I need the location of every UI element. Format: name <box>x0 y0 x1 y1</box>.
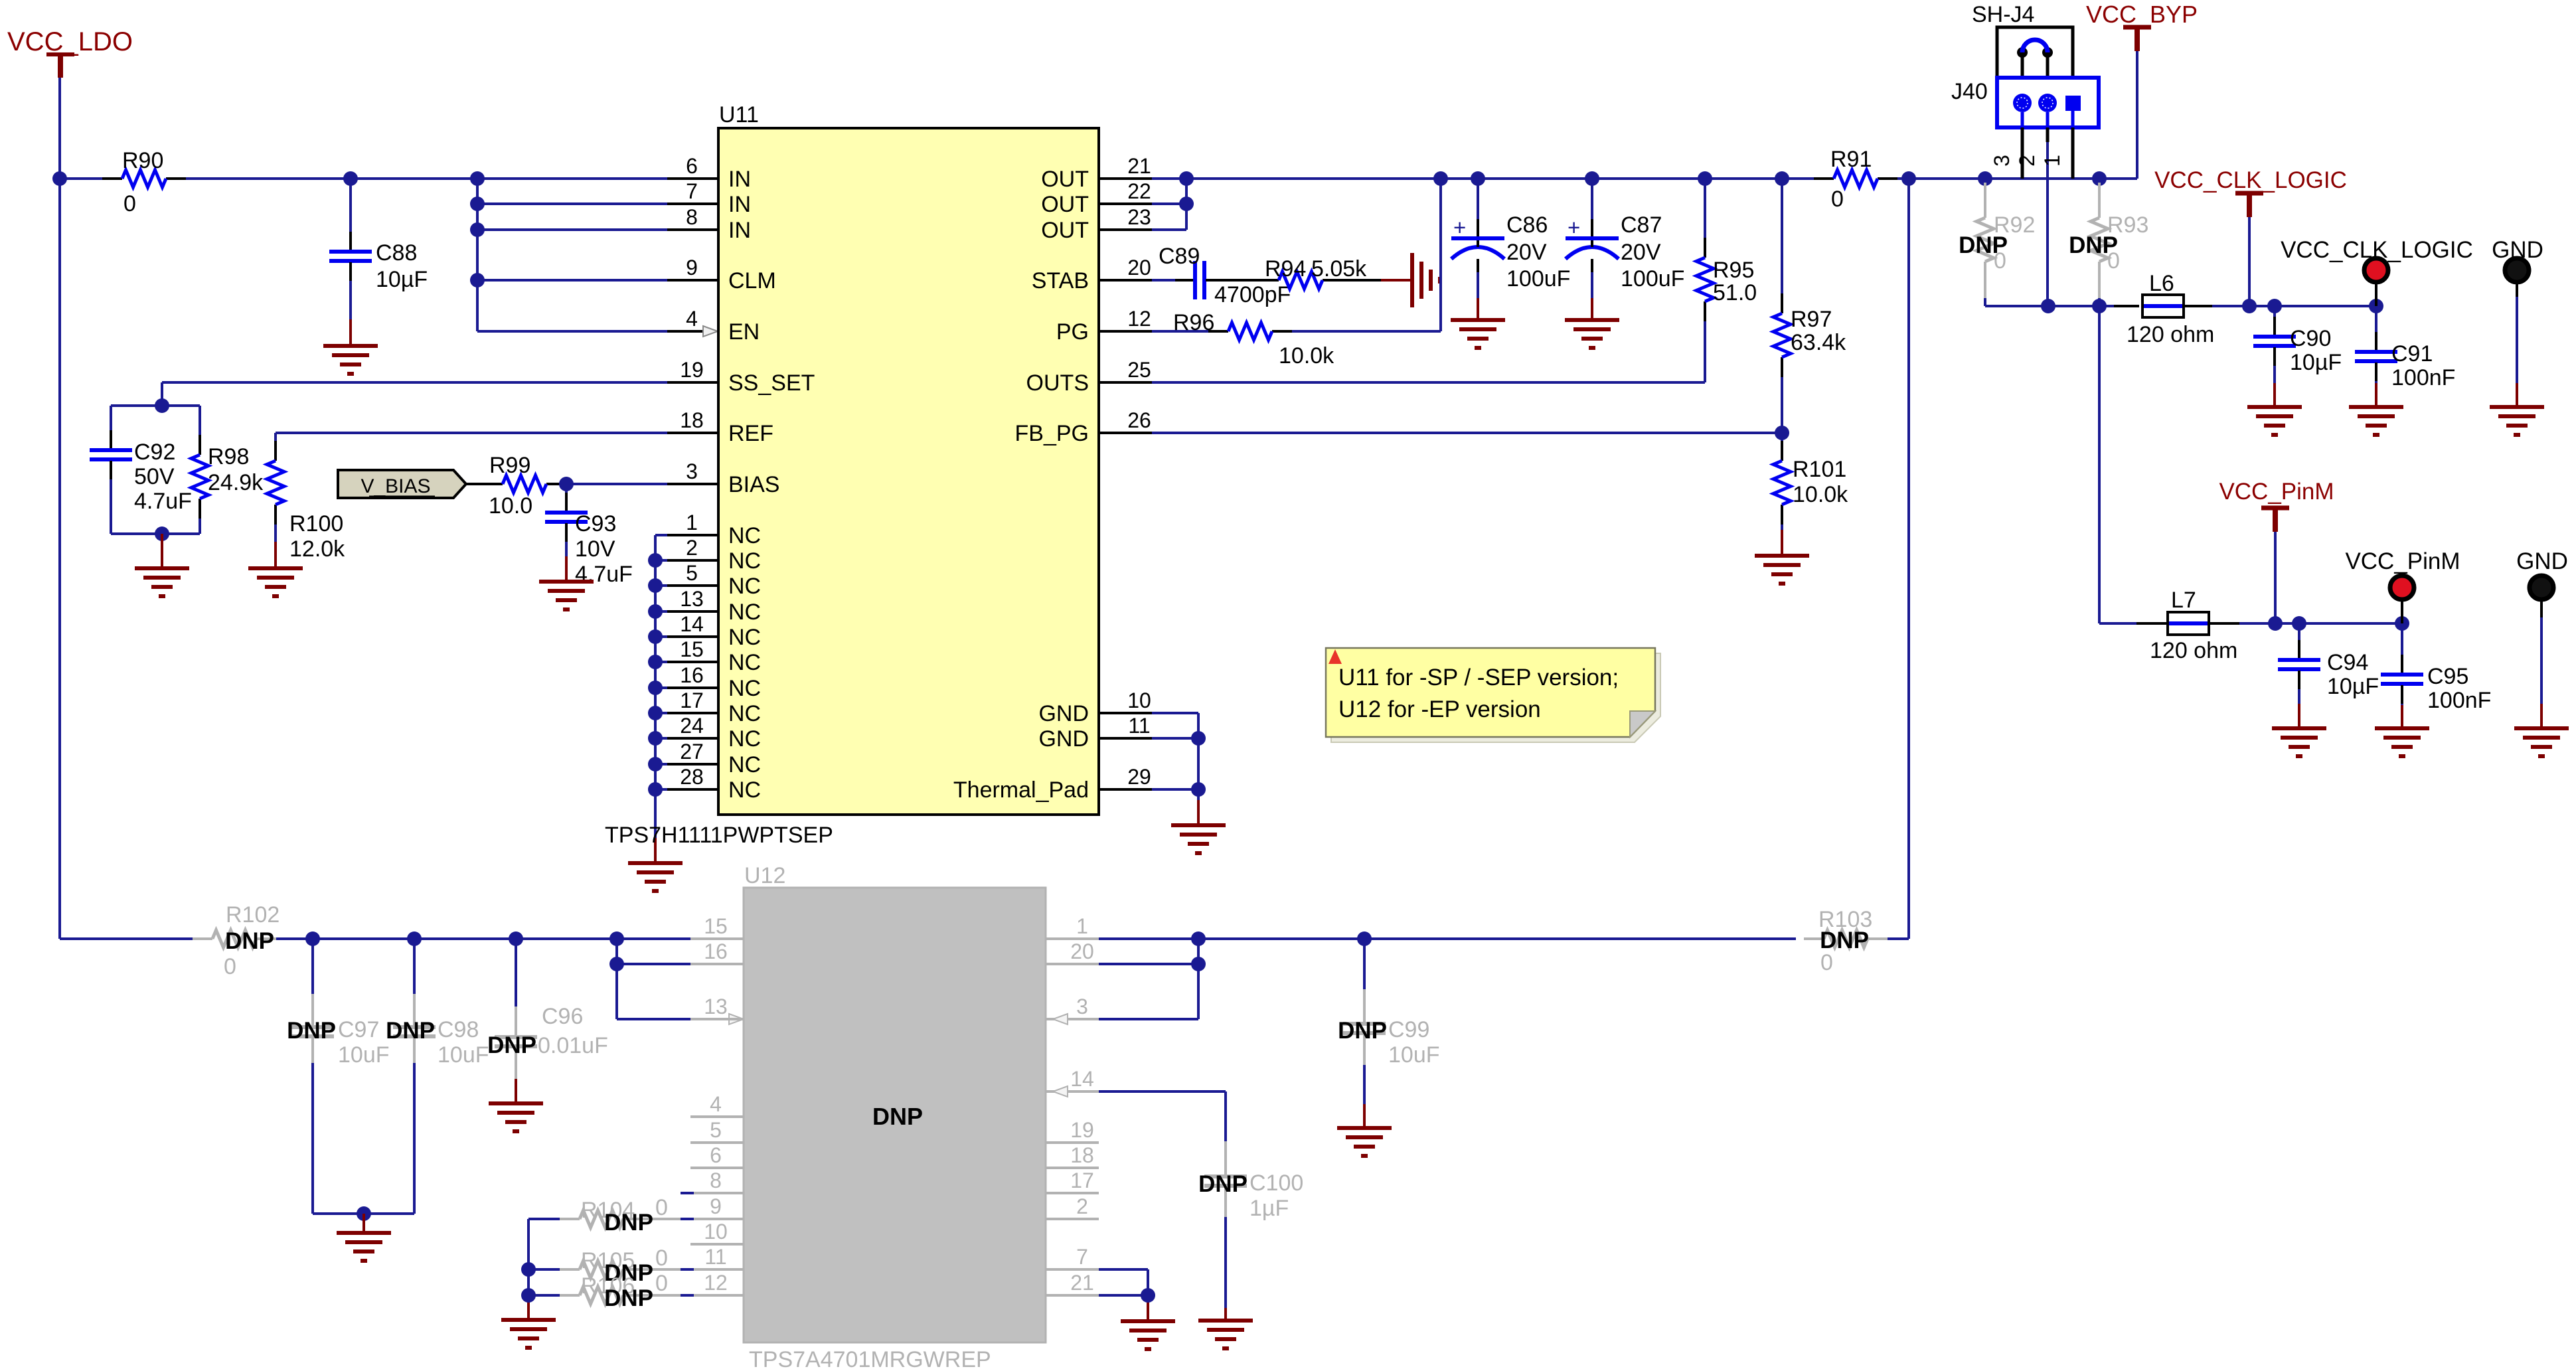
svg-text:DNP: DNP <box>1198 1171 1248 1197</box>
junction C91 tap <box>2369 299 2383 313</box>
test point GND (bottom) <box>2516 548 2568 728</box>
resistor R101 <box>1773 433 1848 530</box>
ground C100 <box>1198 1321 1253 1348</box>
wire pin15 node down to pin16/pin13 <box>617 939 744 1024</box>
resistor R96 <box>1173 310 1334 368</box>
svg-text:0.01uF: 0.01uF <box>538 1033 608 1058</box>
svg-text:17: 17 <box>680 688 704 712</box>
svg-text:16: 16 <box>704 939 728 963</box>
net label V_BIAS <box>338 470 466 498</box>
svg-text:SH-J4: SH-J4 <box>1972 2 2034 27</box>
svg-text:4: 4 <box>686 307 698 331</box>
junction R97 tap <box>1775 171 1789 186</box>
svg-text:16: 16 <box>680 663 704 687</box>
connector J40 header <box>1951 78 2099 127</box>
wire L7 to caps <box>2209 622 2402 625</box>
capacitor C95 <box>2381 623 2491 728</box>
wire VCC_LDO vertical down to bottom rail <box>58 78 61 939</box>
wire to pin 7 <box>477 202 718 205</box>
op-amp U12 TPS7A4701MRGWREP regulator box (DNP) with pin numbers <box>690 863 1099 1371</box>
capacitor C100 (DNP) <box>1198 1141 1303 1321</box>
resistor R97 <box>1773 179 1846 433</box>
resistor R94 <box>1259 256 1367 289</box>
wire SS_SET pin 19 <box>162 382 718 406</box>
svg-text:0: 0 <box>655 1246 668 1271</box>
wire VCC_CLK_LOGIC power to rail <box>2248 217 2251 306</box>
svg-text:VCC_PinM: VCC_PinM <box>2219 479 2334 505</box>
svg-text:DNP: DNP <box>872 1103 923 1130</box>
ground R100 <box>248 568 303 596</box>
wire OUT rail <box>1186 177 2137 180</box>
wire to pin 9 CLM <box>477 279 718 282</box>
svg-text:24: 24 <box>680 714 704 738</box>
svg-text:U12: U12 <box>744 863 785 888</box>
svg-text:NC: NC <box>728 548 761 574</box>
junction pin15 node <box>609 931 624 946</box>
wire R93 node down to L7 <box>2099 306 2168 623</box>
svg-text:NC: NC <box>728 574 761 599</box>
inductor L7 <box>2150 588 2237 663</box>
svg-text:20: 20 <box>1127 256 1151 280</box>
svg-text:26: 26 <box>1127 408 1151 432</box>
svg-text:C87: C87 <box>1621 212 1662 238</box>
svg-text:10.0k: 10.0k <box>1793 482 1848 507</box>
ground C88 <box>323 346 378 374</box>
wire R101 to ground <box>1781 530 1783 556</box>
svg-text:C97: C97 <box>338 1017 379 1042</box>
wire VCC_PinM power to rail <box>2274 532 2277 623</box>
svg-text:50V: 50V <box>134 464 175 489</box>
svg-text:100nF: 100nF <box>2427 688 2491 713</box>
svg-text:DNP: DNP <box>1338 1018 1387 1044</box>
wire C97/C98 bottom bus <box>313 1212 414 1215</box>
capacitor C92 <box>90 406 192 534</box>
svg-text:R100: R100 <box>289 511 343 536</box>
wire R96 to OUT rail <box>1292 179 1441 331</box>
svg-text:C92: C92 <box>134 440 175 465</box>
wire L6 to caps <box>2184 305 2376 307</box>
capacitor C99 (DNP) <box>1338 939 1439 1128</box>
svg-text:12: 12 <box>1127 307 1151 331</box>
svg-text:21: 21 <box>1127 154 1151 178</box>
svg-text:21: 21 <box>1070 1271 1094 1295</box>
svg-text:15: 15 <box>680 637 704 661</box>
svg-text:5: 5 <box>710 1118 722 1142</box>
svg-text:R90: R90 <box>122 148 163 173</box>
connector SH-J4 shunt jumper <box>1972 2 2073 78</box>
svg-text:R95: R95 <box>1713 258 1754 283</box>
ground NC bus <box>628 863 683 891</box>
wire bottom rail left <box>60 937 193 940</box>
svg-text:18: 18 <box>680 408 704 432</box>
svg-text:IN: IN <box>728 192 751 217</box>
svg-text:2: 2 <box>1076 1194 1088 1218</box>
svg-text:C91: C91 <box>2391 341 2433 366</box>
junction pin2 node <box>2041 299 2055 313</box>
svg-text:C86: C86 <box>1506 212 1548 238</box>
svg-text:J40: J40 <box>1951 79 1988 104</box>
power flag VCC_PinM <box>2219 479 2334 532</box>
test point VCC_PinM <box>2345 548 2460 623</box>
svg-text:3: 3 <box>1076 995 1088 1018</box>
inductor L6 <box>2127 271 2214 347</box>
svg-text:CLM: CLM <box>728 268 776 293</box>
resistor R99 <box>483 453 566 519</box>
svg-text:L6: L6 <box>2149 271 2174 296</box>
ground C96 <box>489 1103 543 1131</box>
junction C98 tap <box>407 931 422 946</box>
wire pin20/pin3 link <box>1099 939 1198 1019</box>
svg-text:NC: NC <box>728 650 761 675</box>
svg-text:TPS7H1111PWPTSEP: TPS7H1111PWPTSEP <box>605 823 833 848</box>
wire OUT node to bottom rail <box>1907 179 1910 939</box>
svg-text:5: 5 <box>686 561 698 585</box>
capacitor C88 <box>329 179 428 346</box>
svg-text:GND: GND <box>2516 548 2568 574</box>
junction R105 node <box>521 1262 536 1277</box>
junction C90 tap <box>2267 299 2282 313</box>
svg-text:VCC_PinM: VCC_PinM <box>2345 548 2460 574</box>
junction IN bus pin8 <box>470 222 485 237</box>
svg-text:10µF: 10µF <box>376 267 428 292</box>
U12 pin 14 input arrow <box>1053 1086 1068 1097</box>
ground C91 <box>2349 407 2403 435</box>
svg-text:BIAS: BIAS <box>728 472 779 497</box>
svg-text:OUT: OUT <box>1041 167 1089 192</box>
resistor R105 (DNP) <box>528 1246 694 1286</box>
junction C97 tap <box>305 931 320 946</box>
resistor R95 <box>1696 179 1757 382</box>
ground C97/C98 <box>337 1233 391 1261</box>
svg-text:7: 7 <box>1076 1245 1088 1269</box>
svg-text:19: 19 <box>680 358 704 382</box>
svg-text:5.05k: 5.05k <box>1311 256 1367 282</box>
svg-text:13: 13 <box>704 995 728 1018</box>
svg-text:100uF: 100uF <box>1621 266 1684 291</box>
svg-text:DNP: DNP <box>386 1018 435 1044</box>
svg-text:20: 20 <box>1070 939 1094 963</box>
wire R102 to U12 pin 15 <box>276 937 744 940</box>
capacitor C94 <box>2278 623 2379 728</box>
svg-text:DNP: DNP <box>604 1285 653 1311</box>
svg-text:VCC_LDO: VCC_LDO <box>7 27 133 56</box>
J40 pin 3 wire <box>1990 127 2022 179</box>
ground GND test point 2 <box>2514 728 2569 756</box>
svg-text:+: + <box>1568 215 1580 240</box>
wire R90 to U11 IN <box>351 177 718 180</box>
svg-text:28: 28 <box>680 765 704 789</box>
svg-text:NC: NC <box>728 777 761 803</box>
ground C94 <box>2272 728 2326 756</box>
svg-text:2: 2 <box>686 536 698 560</box>
svg-text:0: 0 <box>655 1195 668 1220</box>
wire VCC rail to L6 <box>1985 305 2139 307</box>
svg-text:15: 15 <box>704 914 728 938</box>
svg-text:FB_PG: FB_PG <box>1015 421 1089 446</box>
junction C92-R98 top <box>155 398 169 413</box>
junction C86 tap <box>1471 171 1485 186</box>
wire PG pin 12 <box>1152 330 1210 333</box>
resistor R103 (DNP) <box>1804 907 1909 975</box>
wire to ground <box>161 534 163 568</box>
svg-text:0: 0 <box>655 1271 668 1296</box>
svg-text:U11 for -SP / -SEP version;: U11 for -SP / -SEP version; <box>1338 665 1619 690</box>
svg-text:11: 11 <box>1128 714 1150 738</box>
svg-text:C96: C96 <box>542 1004 583 1029</box>
svg-text:0: 0 <box>123 191 136 216</box>
junction C93 tap <box>559 477 574 491</box>
svg-text:12: 12 <box>704 1271 728 1295</box>
wire U11 right pin stubs <box>1099 179 1152 789</box>
ground U11 GND <box>1171 825 1226 853</box>
capacitor C98 (DNP) <box>386 939 489 1214</box>
svg-text:L7: L7 <box>2171 588 2196 613</box>
svg-text:DNP: DNP <box>604 1210 653 1236</box>
svg-text:51.0: 51.0 <box>1713 280 1757 305</box>
wire VCC_BYP down to rail <box>2136 51 2138 179</box>
svg-text:4.7uF: 4.7uF <box>134 489 192 514</box>
ground R104 bus <box>501 1320 556 1348</box>
resistor R106 (DNP) <box>528 1271 694 1311</box>
wire to pin 8 <box>477 228 718 231</box>
svg-text:25: 25 <box>1127 358 1151 382</box>
junction pin1 node <box>1191 931 1206 946</box>
U12 pin 3 input arrow <box>1053 1014 1068 1024</box>
svg-text:R102: R102 <box>226 902 280 927</box>
junction C92-R98 bottom <box>155 526 169 541</box>
svg-text:OUT: OUT <box>1041 192 1089 217</box>
wire STAB pin 20 <box>1152 279 1190 282</box>
resistor R98 <box>191 406 264 534</box>
junction C97/C98 ground node <box>357 1206 371 1221</box>
svg-text:GND: GND <box>1038 701 1089 726</box>
test point GND (top) <box>2492 237 2543 407</box>
junction OUT22 <box>1179 197 1194 211</box>
svg-text:1µF: 1µF <box>1249 1196 1289 1221</box>
svg-text:17: 17 <box>1070 1169 1094 1192</box>
junction pin16 node <box>609 957 624 971</box>
svg-text:DNP: DNP <box>287 1018 336 1044</box>
svg-text:120 ohm: 120 ohm <box>2150 638 2237 663</box>
svg-text:22: 22 <box>1127 179 1151 203</box>
power flag VCC_CLK_LOGIC <box>2154 167 2347 217</box>
resistor R104 (DNP) <box>528 1195 694 1236</box>
svg-text:NC: NC <box>728 752 761 777</box>
ground C90 <box>2247 407 2302 435</box>
junction R106 node <box>521 1288 536 1303</box>
junction R93 tap <box>2092 171 2107 186</box>
svg-text:2: 2 <box>2015 155 2039 167</box>
svg-text:C95: C95 <box>2427 664 2468 689</box>
svg-text:OUTS: OUTS <box>1026 370 1089 396</box>
junction R96 pullup <box>1433 171 1448 186</box>
resistor R100 <box>267 433 345 562</box>
wire pin 14 to C100 <box>1099 1091 1226 1141</box>
svg-text:C89: C89 <box>1159 244 1200 269</box>
wire REF pin 18 <box>276 432 718 434</box>
svg-text:14: 14 <box>680 612 704 636</box>
wire C92/R98 bottom bus <box>111 532 200 535</box>
junction FB_PG node <box>1775 426 1789 440</box>
wire U12 pin 1 rail <box>1099 937 1796 940</box>
svg-text:120 ohm: 120 ohm <box>2127 322 2214 347</box>
svg-text:100nF: 100nF <box>2391 365 2455 390</box>
svg-text:10: 10 <box>704 1220 728 1244</box>
junction VCC_LDO / R90 node <box>52 171 67 186</box>
svg-text:NC: NC <box>728 676 761 701</box>
svg-text:C88: C88 <box>376 240 417 266</box>
svg-text:DNP: DNP <box>487 1032 536 1058</box>
svg-text:R94: R94 <box>1265 256 1306 282</box>
junction C88 tap <box>343 171 358 186</box>
resistor R92 (DNP) <box>1959 183 2035 306</box>
ground C93 <box>539 582 594 609</box>
svg-text:NC: NC <box>728 523 761 548</box>
svg-text:0: 0 <box>2107 248 2120 274</box>
svg-text:23: 23 <box>1127 205 1151 229</box>
svg-text:7: 7 <box>686 179 698 203</box>
resistor R90 <box>60 148 351 216</box>
junction C87 tap <box>1585 171 1599 186</box>
capacitor C90 <box>2253 306 2342 407</box>
svg-text:1: 1 <box>686 511 698 534</box>
junction IN bus CLM <box>470 273 485 287</box>
junction C95 tap <box>2395 616 2409 631</box>
svg-text:R98: R98 <box>208 444 249 469</box>
svg-text:R99: R99 <box>489 453 530 478</box>
svg-text:R101: R101 <box>1793 457 1846 482</box>
svg-text:C90: C90 <box>2290 326 2331 351</box>
svg-text:0: 0 <box>1831 187 1844 212</box>
svg-text:NC: NC <box>728 600 761 625</box>
svg-text:4700pF: 4700pF <box>1214 282 1291 307</box>
ground C86 <box>1451 320 1505 348</box>
svg-text:12.0k: 12.0k <box>289 536 345 562</box>
svg-text:20V: 20V <box>1506 240 1547 265</box>
svg-text:IN: IN <box>728 167 751 192</box>
wire OUTS pin 25 <box>1152 381 1705 384</box>
svg-text:10: 10 <box>1127 688 1151 712</box>
junction OUT21 <box>1179 171 1194 186</box>
svg-text:EN: EN <box>728 319 760 345</box>
wire C89 to R94 <box>1224 279 1259 282</box>
junction pin21 node <box>1141 1288 1155 1303</box>
svg-text:11: 11 <box>704 1245 726 1269</box>
svg-text:13: 13 <box>680 587 704 611</box>
junction IN bus pin7 <box>470 197 485 211</box>
capacitor C97 (DNP) <box>287 939 389 1214</box>
test point VCC_CLK_LOGIC <box>2281 237 2473 306</box>
junction C99 tap <box>1357 931 1372 946</box>
svg-text:U11: U11 <box>719 102 759 127</box>
wire R99 to BIAS pin 3 <box>566 483 718 485</box>
wire C92/R98 top bus <box>111 404 200 407</box>
svg-text:NC: NC <box>728 726 761 752</box>
svg-text:10.0: 10.0 <box>489 493 532 519</box>
resistor R102 (DNP) <box>193 902 280 979</box>
capacitor C87 (polarized) <box>1566 179 1684 320</box>
svg-text:9: 9 <box>710 1194 722 1218</box>
svg-text:PG: PG <box>1056 319 1089 345</box>
wire NC bus to ground <box>654 789 657 863</box>
svg-text:0: 0 <box>1994 248 2006 274</box>
ground C87 <box>1565 320 1619 348</box>
junction R92 tap <box>1978 171 1992 186</box>
svg-text:10uF: 10uF <box>1388 1042 1440 1068</box>
svg-text:10.0k: 10.0k <box>1279 343 1334 368</box>
svg-text:C94: C94 <box>2327 650 2368 675</box>
capacitor C89 <box>1159 244 1291 307</box>
wire GND pins to ground <box>1152 713 1198 825</box>
svg-text:18: 18 <box>1070 1143 1094 1167</box>
svg-text:REF: REF <box>728 421 773 446</box>
svg-text:24.9k: 24.9k <box>208 470 264 495</box>
svg-text:29: 29 <box>1127 765 1151 789</box>
svg-text:DNP: DNP <box>225 928 274 954</box>
svg-text:+: + <box>1453 215 1466 240</box>
svg-text:0: 0 <box>1820 950 1833 975</box>
svg-text:VCC_BYP: VCC_BYP <box>2086 1 2198 28</box>
svg-text:C98: C98 <box>438 1017 479 1042</box>
svg-text:63.4k: 63.4k <box>1791 330 1846 355</box>
note U11/U12 version <box>1326 648 1660 742</box>
svg-text:9: 9 <box>686 256 698 280</box>
svg-text:R97: R97 <box>1791 307 1832 332</box>
svg-text:10uF: 10uF <box>438 1042 489 1068</box>
junction VCC_CLK_LOGIC power tap <box>2242 299 2257 313</box>
svg-text:6: 6 <box>686 154 698 178</box>
resistor R93 (DNP) <box>2069 183 2148 306</box>
wire R100 to ground <box>274 542 277 568</box>
svg-text:SS_SET: SS_SET <box>728 370 815 396</box>
svg-text:100uF: 100uF <box>1506 266 1570 291</box>
junction R93 bottom node <box>2092 299 2107 313</box>
capacitor C91 <box>2355 306 2455 407</box>
svg-text:20V: 20V <box>1621 240 1661 265</box>
svg-text:8: 8 <box>686 205 698 229</box>
svg-text:10V: 10V <box>575 536 615 562</box>
power flag VCC_LDO <box>7 27 133 78</box>
capacitor C86 (polarized) <box>1451 179 1570 320</box>
junction C96 tap <box>509 931 523 946</box>
wire R104/R105/R106 bus <box>527 1219 530 1320</box>
svg-text:27: 27 <box>680 740 704 764</box>
ground C92/R98 <box>135 568 189 596</box>
svg-text:VCC_CLK_LOGIC: VCC_CLK_LOGIC <box>2154 167 2347 193</box>
svg-text:1: 1 <box>1076 914 1088 938</box>
svg-text:C93: C93 <box>575 511 616 536</box>
svg-text:6: 6 <box>710 1143 722 1167</box>
wire OUT pins to rail <box>1152 179 1186 230</box>
junction R91 right node <box>1901 171 1916 186</box>
svg-text:GND: GND <box>1038 726 1089 752</box>
svg-text:NC: NC <box>728 625 761 650</box>
resistor R91 <box>1814 147 1897 212</box>
op-amp U11 TPS7H1111PWPTSEP regulator box with pin names and pin numbers <box>605 102 1151 848</box>
wire FB_PG pin 26 <box>1152 432 1782 434</box>
svg-text:10uF: 10uF <box>338 1042 390 1068</box>
ground pin7/21 <box>1121 1321 1175 1349</box>
junction pin20 node <box>1191 957 1206 971</box>
ground C99 <box>1337 1128 1392 1156</box>
junction R95 tap <box>1698 171 1712 186</box>
junction C94 tap <box>2292 616 2306 631</box>
svg-text:19: 19 <box>1070 1118 1094 1142</box>
svg-text:C100: C100 <box>1249 1170 1303 1196</box>
capacitor C96 (DNP) <box>487 939 608 1103</box>
svg-text:R91: R91 <box>1830 147 1872 172</box>
svg-text:14: 14 <box>1070 1067 1094 1091</box>
